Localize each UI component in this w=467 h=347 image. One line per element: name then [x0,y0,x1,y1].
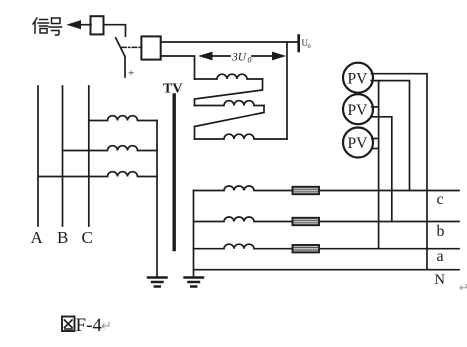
wire common vertical to a [378,81,380,249]
open-delta winding coil 1 [195,74,263,79]
secondary star point wire [193,191,195,277]
secondary winding phase c [194,186,460,191]
wire PV2 bottom terminal to b [372,117,392,222]
svg-text:3U: 3U [231,52,247,64]
busbar B [62,86,64,226]
wire bottom output to open-delta [161,56,195,79]
wire [195,106,265,140]
fuse phase a [293,245,320,252]
svg-text:b: b [437,223,445,240]
voltmeter PV1 [343,63,373,93]
fuse phase c [293,187,320,194]
TV primary winding phase B [63,146,158,151]
svg-text:C: C [82,228,93,247]
arrow to 信号 [79,24,91,26]
TV core bar [172,95,175,250]
relay box K1 (signal relay) [91,16,104,34]
voltmeter PV3 [343,128,373,158]
secondary winding phase a [194,244,460,249]
fuse phase b [293,218,320,225]
svg-text:c: c [437,191,444,208]
svg-text:PV: PV [348,135,369,152]
U0 terminal bar [297,36,300,52]
wire PV3 top stub [372,138,379,140]
label 信号 (signal) hand-drawn [33,18,62,35]
busbar C [88,86,90,226]
svg-text:B: B [57,228,68,247]
wire right side of delta [286,42,288,139]
relay box K2 [141,36,160,59]
wire PV1 bottom terminal to c [371,81,409,191]
svg-text:PV: PV [348,102,369,119]
svg-text:↵: ↵ [459,281,467,295]
wire box1 to switch [104,25,126,37]
svg-text:↵: ↵ [101,318,112,333]
busbar A [37,86,39,226]
svg-text:0: 0 [308,43,311,50]
svg-text:a: a [437,248,444,265]
wire PV2 top stub [372,106,379,108]
primary neutral wire [156,121,158,277]
dash-dot linkage [122,46,142,48]
svg-text:F-4: F-4 [76,315,103,336]
svg-text:0: 0 [248,56,252,65]
open-delta winding coil 2 [195,101,265,106]
ground primary [148,278,167,287]
ground secondary [185,278,204,287]
wire PV1 top terminal to N [371,74,427,270]
svg-text:A: A [31,228,44,247]
TV primary winding phase C [89,116,157,121]
svg-text:PV: PV [348,70,369,87]
voltmeter PV2 [343,94,373,124]
switch bottom stub [124,57,126,78]
secondary winding phase b [194,217,460,222]
caption 图 hand-drawn [62,317,75,332]
svg-text:N: N [435,272,446,288]
3U0 measurement double arrow [211,55,274,57]
neutral wire N [194,269,460,271]
open-delta winding coil 3 [195,134,288,139]
wire [195,79,263,106]
wire PV3 bottom stub [372,148,379,150]
wire top output to U0 terminal [161,41,298,43]
TV primary winding phase A [38,172,157,177]
switch blade [116,38,125,57]
svg-text:+: + [128,68,134,80]
